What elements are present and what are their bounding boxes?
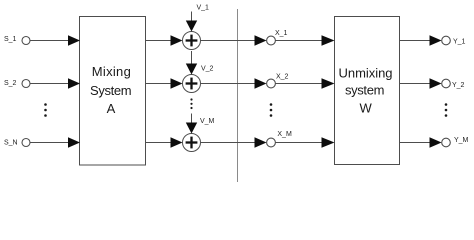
svg-text:X_1: X_1 (275, 30, 288, 37)
svg-text:system: system (345, 83, 385, 98)
svg-text:X_2: X_2 (276, 74, 289, 81)
svg-text:Unmixing: Unmixing (339, 66, 393, 81)
svg-text:System: System (90, 83, 132, 98)
svg-text:V_2: V_2 (201, 66, 214, 73)
svg-text:V_M: V_M (200, 118, 215, 125)
svg-text:W: W (359, 100, 372, 115)
svg-text:V_1: V_1 (197, 5, 210, 12)
svg-text:S_N: S_N (4, 140, 18, 147)
svg-text:Y_1: Y_1 (453, 39, 466, 46)
svg-text:Y_M: Y_M (454, 137, 469, 144)
svg-text:S_1: S_1 (4, 36, 17, 43)
svg-text:Y_2: Y_2 (452, 82, 465, 89)
svg-text:S_2: S_2 (4, 80, 17, 87)
svg-text:Mixing: Mixing (92, 64, 131, 79)
svg-text:X_M: X_M (277, 131, 292, 138)
svg-text:A: A (107, 101, 116, 116)
